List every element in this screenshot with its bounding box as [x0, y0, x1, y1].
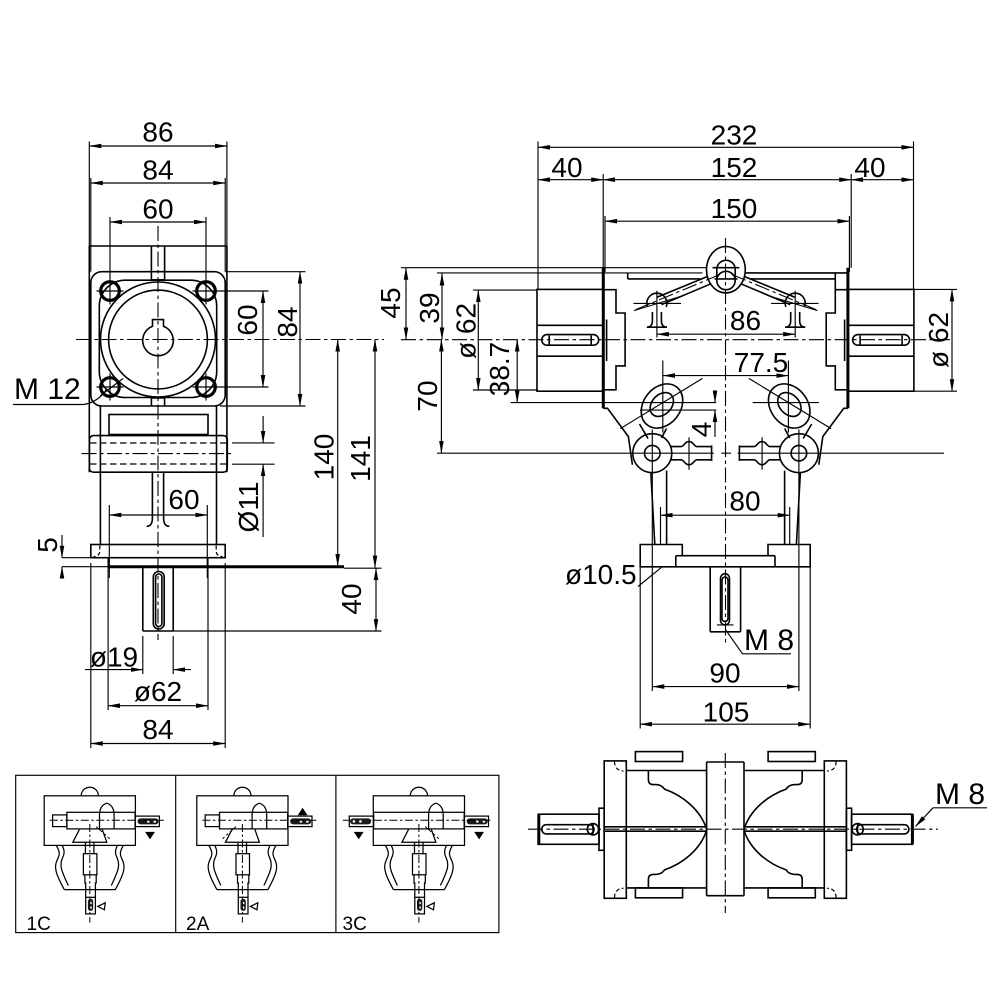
svg-text:2A: 2A	[186, 914, 210, 935]
svg-text:ø62: ø62	[134, 676, 182, 707]
svg-text:ø 62: ø 62	[923, 312, 954, 368]
svg-text:150: 150	[711, 193, 758, 224]
svg-text:4: 4	[686, 422, 717, 438]
svg-text:39: 39	[414, 292, 445, 323]
svg-text:70: 70	[412, 380, 443, 411]
svg-text:141: 141	[345, 435, 376, 482]
svg-text:1C: 1C	[27, 914, 51, 935]
svg-text:86: 86	[730, 305, 761, 336]
svg-text:77.5: 77.5	[734, 347, 789, 378]
svg-text:60: 60	[232, 304, 263, 335]
svg-text:60: 60	[142, 194, 173, 225]
svg-text:86: 86	[142, 117, 173, 148]
svg-text:84: 84	[272, 306, 303, 337]
svg-text:105: 105	[703, 697, 750, 728]
svg-text:232: 232	[711, 120, 758, 151]
svg-text:M 12: M 12	[14, 373, 81, 406]
svg-text:152: 152	[711, 152, 758, 183]
svg-text:84: 84	[142, 155, 173, 186]
svg-text:38.7: 38.7	[484, 342, 515, 397]
svg-text:40: 40	[551, 152, 582, 183]
svg-text:84: 84	[142, 714, 173, 745]
svg-text:M 8: M 8	[935, 778, 985, 811]
svg-text:ø10.5: ø10.5	[565, 559, 637, 590]
svg-text:140: 140	[309, 434, 340, 481]
svg-text:90: 90	[709, 658, 740, 689]
svg-text:M 8: M 8	[744, 624, 794, 657]
svg-text:40: 40	[336, 583, 367, 614]
svg-text:40: 40	[854, 152, 885, 183]
svg-text:60: 60	[168, 484, 199, 515]
svg-text:80: 80	[729, 486, 760, 517]
svg-text:ø 62: ø 62	[451, 303, 482, 359]
svg-text:Ø11: Ø11	[233, 482, 264, 533]
svg-text:ø19: ø19	[90, 642, 138, 673]
svg-text:3C: 3C	[343, 914, 367, 935]
svg-text:45: 45	[375, 287, 406, 318]
svg-text:5: 5	[32, 537, 63, 553]
